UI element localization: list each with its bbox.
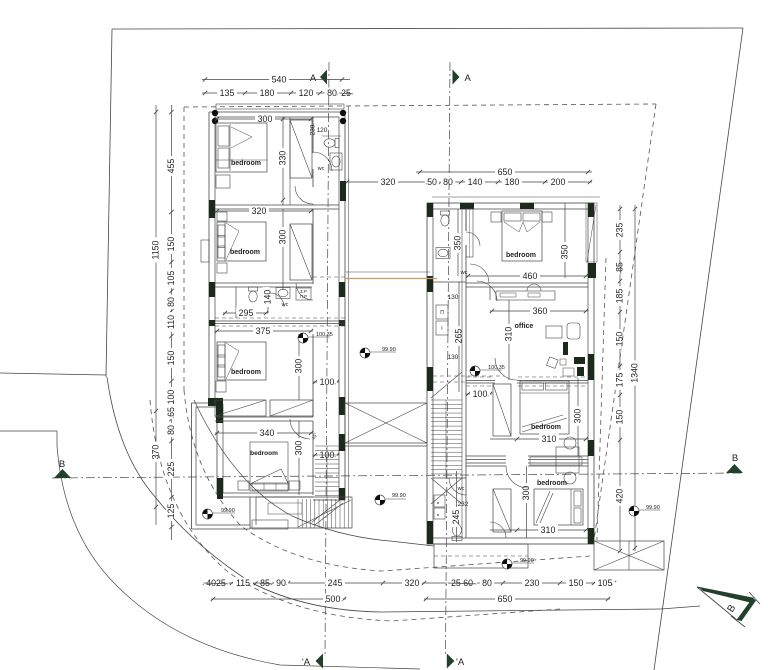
svg-text:150: 150	[166, 237, 176, 252]
svg-text:99.90: 99.90	[382, 347, 396, 353]
svg-text:340: 340	[260, 428, 275, 438]
svg-text:99.90: 99.90	[520, 558, 534, 564]
svg-text:320: 320	[381, 177, 396, 187]
svg-text:50: 50	[427, 177, 437, 187]
svg-text:Π: Π	[440, 310, 444, 316]
svg-text:A: A	[310, 73, 317, 84]
svg-text:80: 80	[166, 425, 176, 435]
svg-text:105: 105	[598, 578, 613, 588]
svg-text:235: 235	[615, 223, 625, 238]
svg-text:100: 100	[473, 389, 488, 399]
svg-text:420: 420	[615, 489, 625, 504]
svg-text:office: office	[515, 323, 534, 330]
svg-text:bedroom: bedroom	[537, 480, 567, 487]
svg-text:A: A	[465, 73, 472, 84]
svg-text:25: 25	[341, 88, 351, 98]
svg-text:310: 310	[542, 434, 557, 444]
svg-text:1150: 1150	[151, 240, 161, 259]
svg-text:wc: wc	[457, 486, 465, 492]
svg-text:wc: wc	[460, 270, 468, 276]
svg-text:80: 80	[482, 578, 492, 588]
svg-text:bedroom: bedroom	[506, 252, 536, 259]
svg-text:180: 180	[260, 88, 275, 98]
svg-text:230: 230	[310, 124, 317, 135]
svg-text:320: 320	[405, 578, 420, 588]
svg-text:135: 135	[220, 88, 235, 98]
svg-text:245: 245	[328, 578, 343, 588]
svg-text:120: 120	[317, 127, 328, 134]
svg-text:105: 105	[166, 271, 176, 286]
svg-text:110: 110	[166, 315, 176, 329]
svg-text:wc: wc	[317, 166, 325, 172]
svg-text:140: 140	[468, 177, 483, 187]
svg-text:375: 375	[256, 326, 271, 336]
svg-text:125: 125	[166, 504, 176, 519]
svg-text:B: B	[59, 459, 65, 470]
svg-text:455: 455	[166, 159, 176, 174]
svg-text:185: 185	[615, 289, 625, 304]
svg-text:265: 265	[454, 329, 464, 344]
svg-text:bedroom: bedroom	[531, 424, 561, 431]
svg-text:230: 230	[525, 578, 540, 588]
svg-text:99.90: 99.90	[392, 493, 406, 499]
svg-text:bedroom: bedroom	[231, 160, 261, 167]
svg-text:540: 540	[272, 74, 287, 84]
svg-text:150: 150	[615, 332, 625, 347]
svg-text:310: 310	[541, 525, 556, 535]
svg-text:wc: wc	[281, 302, 289, 308]
svg-text:I: I	[441, 326, 442, 332]
svg-text:1340: 1340	[630, 363, 640, 383]
svg-text:360: 360	[533, 306, 548, 316]
svg-text:370: 370	[151, 445, 161, 460]
svg-text:115: 115	[236, 578, 250, 588]
svg-text:100: 100	[166, 390, 176, 405]
svg-text:245: 245	[451, 510, 461, 525]
svg-text:650: 650	[498, 594, 513, 604]
svg-text:200: 200	[551, 177, 566, 187]
svg-text:130: 130	[448, 294, 459, 301]
svg-text:'A: 'A	[456, 657, 465, 668]
svg-text:150: 150	[569, 578, 584, 588]
svg-text:bedroom: bedroom	[230, 249, 260, 256]
svg-text:295: 295	[239, 308, 254, 318]
svg-text:650: 650	[498, 167, 513, 177]
svg-text:300: 300	[278, 230, 288, 245]
svg-text:310: 310	[504, 327, 514, 342]
svg-text:500: 500	[326, 594, 341, 604]
svg-text:80: 80	[327, 88, 337, 98]
svg-text:350: 350	[453, 236, 463, 251]
svg-text:99.90: 99.90	[221, 508, 235, 514]
svg-text:460: 460	[523, 271, 538, 281]
svg-text:85: 85	[260, 578, 270, 588]
svg-text:350: 350	[560, 245, 570, 260]
svg-text:300: 300	[573, 409, 583, 424]
svg-text:65: 65	[166, 407, 176, 417]
svg-text:225: 225	[166, 462, 176, 477]
svg-text:140: 140	[263, 290, 273, 305]
svg-text:80: 80	[443, 177, 453, 187]
svg-text:bedroom: bedroom	[250, 450, 278, 457]
svg-text:25 60: 25 60	[451, 578, 473, 588]
svg-text:300: 300	[258, 114, 273, 124]
svg-text:100.35: 100.35	[316, 332, 333, 338]
svg-text:90: 90	[276, 578, 286, 588]
svg-text:150: 150	[166, 351, 176, 366]
svg-text:180: 180	[505, 177, 520, 187]
svg-text:'A: 'A	[302, 657, 311, 668]
svg-text:4025: 4025	[206, 578, 226, 588]
svg-text:80: 80	[166, 297, 176, 307]
svg-text:85: 85	[615, 262, 625, 272]
svg-text:300: 300	[294, 359, 304, 374]
svg-text:130: 130	[448, 354, 459, 361]
svg-text:99.90: 99.90	[646, 505, 660, 511]
svg-text:100: 100	[320, 377, 335, 387]
svg-text:bedroom: bedroom	[231, 369, 261, 376]
svg-text:B: B	[732, 453, 738, 464]
svg-text:120: 120	[299, 88, 314, 98]
svg-text:320: 320	[252, 206, 267, 216]
svg-text:300: 300	[294, 441, 304, 456]
svg-text:175: 175	[615, 373, 625, 388]
svg-text:232: 232	[458, 501, 469, 508]
svg-text:330: 330	[278, 151, 288, 166]
svg-text:150: 150	[615, 410, 625, 425]
